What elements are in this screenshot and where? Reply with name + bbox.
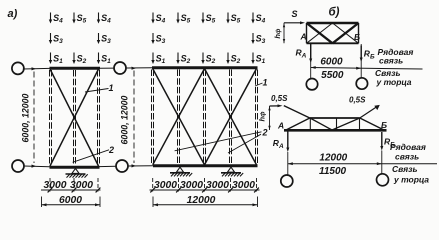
- svg-text:2: 2: [262, 128, 268, 138]
- truss height dimension hf (truss-c): [269, 106, 271, 130]
- force arrow S3 mid-frame col5: [252, 33, 254, 42]
- force arrow S3 left-frame col1: [50, 33, 52, 42]
- force arrow S: [284, 22, 302, 24]
- svg-text:связь: связь: [379, 56, 403, 66]
- truss-c vertical 3: [359, 118, 361, 130]
- truss-b left end post: [306, 23, 308, 43]
- svg-text:6000: 6000: [59, 195, 82, 206]
- truss-c vertical 1: [309, 118, 311, 130]
- mid frame diagonal brace 2: [153, 69, 205, 165]
- left frame column axis 3: [97, 70, 99, 166]
- force arrow S1 left-frame col3: [98, 53, 100, 62]
- force arrow S2 left-frame col2: [73, 53, 75, 62]
- truss-b right end post: [358, 23, 360, 43]
- force arrow S5 mid-frame col3: [202, 13, 204, 22]
- svg-text:12000: 12000: [319, 153, 347, 164]
- force arrow S4 left-frame col3: [98, 13, 100, 22]
- leader line 1 (mid frame): [255, 83, 263, 86]
- column axis circle top-right (left frame): [114, 62, 126, 74]
- left frame column axis 2: [73, 70, 75, 166]
- force arrow S2 mid-frame col4: [227, 53, 229, 62]
- truss-c extension line right: [381, 151, 383, 174]
- truss-b extension line right: [360, 44, 362, 78]
- truss-c right extension with 0,5S arrow: [360, 107, 376, 118]
- svg-text:связь: связь: [395, 151, 419, 161]
- leader line 2 (left frame): [73, 150, 109, 163]
- svg-text:1: 1: [263, 78, 268, 88]
- left frame dimension line 6000: [42, 204, 101, 206]
- column axis circle top-left (left frame): [12, 62, 24, 74]
- svg-text:5500: 5500: [321, 70, 344, 81]
- force arrow S4 left-frame col1: [50, 13, 52, 22]
- svg-text:1: 1: [109, 83, 114, 93]
- svg-text:у торца: у торца: [393, 175, 429, 185]
- mid frame diagonal brace 3: [205, 69, 257, 165]
- truss-b thick diagonal 1: [307, 23, 333, 43]
- force arrow 0,5S left (truss-c): [270, 105, 280, 107]
- truss-b top chord: [307, 22, 359, 25]
- svg-text:6000, 12000: 6000, 12000: [120, 95, 130, 144]
- svg-text:0,5S: 0,5S: [271, 94, 288, 103]
- mid frame top chord: [152, 66, 258, 69]
- truss-b extension line left: [310, 44, 312, 78]
- left frame extension lines row2: [41, 197, 43, 208]
- column axis circle bottom-left (left frame): [12, 160, 24, 172]
- svg-text:А: А: [277, 121, 284, 131]
- svg-text:6000: 6000: [320, 57, 343, 68]
- svg-text:3000: 3000: [44, 180, 67, 191]
- mid frame support left: [176, 167, 183, 172]
- svg-text:3000: 3000: [154, 180, 177, 191]
- truss-c left end diagonal: [286, 118, 310, 130]
- reaction arrow RB (truss-b): [360, 46, 362, 59]
- force arrow S4 mid-frame col1: [152, 13, 154, 22]
- force arrow S3 mid-frame col1: [152, 33, 154, 42]
- truss-b bottom chord: [307, 42, 359, 44]
- mid frame column axis 2: [177, 70, 179, 165]
- force arrow S2 mid-frame col2: [177, 53, 179, 62]
- force arrow S3 left-frame col3: [98, 33, 100, 42]
- force arrow S2 mid-frame col3: [202, 53, 204, 62]
- column circle left (truss-b): [306, 79, 317, 90]
- leader line 1 (left frame): [85, 89, 109, 93]
- truss-c diagonal 2: [332, 118, 360, 130]
- mid frame support right: [227, 167, 234, 172]
- svg-text:3000: 3000: [180, 180, 203, 191]
- reaction arrow RA (truss-b): [310, 44, 312, 60]
- truss-c right end diagonal: [360, 118, 384, 130]
- svg-text:3000: 3000: [232, 180, 255, 191]
- left frame bottom chord: [50, 166, 100, 169]
- svg-text:А: А: [300, 32, 307, 42]
- truss-c extension line left: [287, 152, 289, 175]
- svg-text:11500: 11500: [319, 166, 347, 177]
- svg-text:S: S: [292, 9, 298, 19]
- vertical dimension line far-left: [33, 72, 35, 164]
- left frame dimension line 3000+3000: [41, 189, 101, 191]
- reaction arrow RB (truss-c): [381, 132, 383, 147]
- column circle right (truss-c): [377, 174, 389, 186]
- mid frame column axis 3: [203, 70, 205, 165]
- truss-b thin diagonal 2: [333, 23, 359, 43]
- left frame diagonal brace 2: [50, 69, 99, 166]
- axis line top-mid-left: [100, 67, 114, 69]
- left frame diagonal brace 1: [50, 69, 99, 166]
- svg-text:3000: 3000: [70, 180, 93, 191]
- svg-text:а): а): [8, 8, 18, 20]
- force arrow S4 mid-frame col5: [252, 13, 254, 22]
- svg-text:2: 2: [108, 145, 114, 155]
- force arrow S1 mid-frame col5: [252, 53, 254, 62]
- truss height dimension line hf (top): [283, 23, 285, 44]
- truss-b thick diagonal 2: [333, 23, 359, 43]
- dimension-separator line (truss-c): [288, 163, 437, 165]
- svg-text:Б: Б: [354, 32, 360, 42]
- force arrow S5 mid-frame col2: [177, 13, 179, 22]
- force arrow S1 left-frame col1: [50, 53, 52, 62]
- mid frame diagonal brace 1: [153, 69, 205, 165]
- svg-text:б): б): [329, 7, 340, 19]
- mid frame bottom chord: [153, 164, 258, 167]
- column axis circle bottom-right (left frame): [116, 160, 128, 172]
- truss-c diagonal 1: [310, 118, 332, 130]
- axis line top-left: [23, 67, 50, 70]
- vertical dimension line between frames: [133, 71, 135, 164]
- mid frame column axis 4: [229, 70, 231, 165]
- svg-text:у торца: у торца: [376, 77, 412, 87]
- left frame top chord: [50, 67, 101, 70]
- reaction arrow RA (truss-c): [287, 131, 289, 149]
- mid frame dimension line 3000x4: [150, 189, 260, 191]
- svg-text:Б: Б: [381, 120, 387, 130]
- mid frame column axis 5: [255, 70, 257, 165]
- mid frame diagonal brace 4: [205, 69, 257, 165]
- column circle right (truss-b): [356, 78, 367, 89]
- mid frame extension lines row2: [152, 197, 154, 208]
- force arrow S5 left-frame col2: [73, 13, 75, 22]
- left frame column axis 1: [49, 70, 51, 166]
- leader line 2b (mid frame): [228, 134, 261, 153]
- truss-c left extension gable: [284, 106, 310, 118]
- left frame support: [72, 168, 79, 173]
- svg-text:0,5S: 0,5S: [349, 95, 366, 104]
- truss-c vertical 2: [336, 118, 338, 130]
- svg-text:6000, 12000: 6000, 12000: [21, 93, 31, 142]
- axis line bottom-left: [24, 165, 50, 168]
- column circle left (truss-c): [281, 175, 293, 187]
- axis line bottom-mid-right: [128, 165, 153, 167]
- truss-c top chord: [310, 117, 360, 119]
- force arrow S5 mid-frame col4: [227, 13, 229, 22]
- truss-c bottom chord: [284, 129, 387, 132]
- mid frame column axis 1: [151, 70, 153, 165]
- mid frame extension lines row1: [152, 178, 154, 192]
- mid frame dimension line 12000: [153, 204, 258, 206]
- svg-text:3000: 3000: [206, 180, 229, 191]
- svg-text:Связь: Связь: [392, 164, 418, 174]
- leader line 2a (mid frame): [175, 132, 262, 151]
- svg-text:12000: 12000: [187, 195, 216, 206]
- dimension-separator line (truss-b): [311, 68, 423, 70]
- axis line top-mid-right: [126, 67, 152, 69]
- force arrow S1 mid-frame col1: [152, 53, 154, 62]
- axis line bottom-mid-left: [100, 165, 117, 167]
- truss-b thin diagonal 1: [307, 23, 333, 43]
- left frame extension lines row1: [49, 178, 51, 192]
